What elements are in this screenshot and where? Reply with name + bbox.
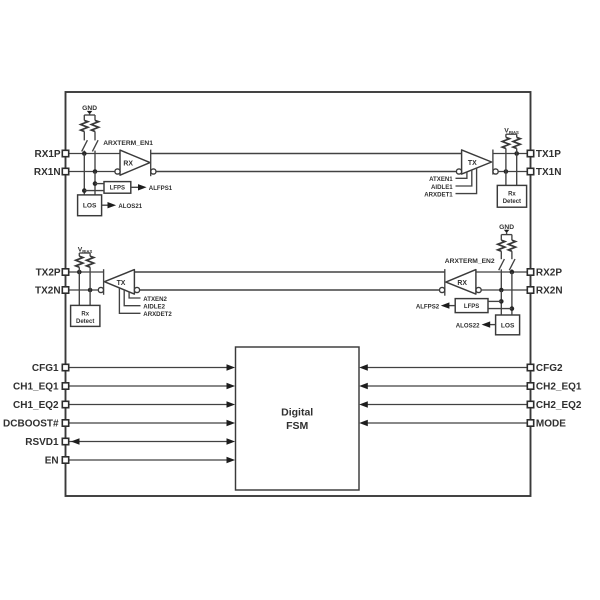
inverting input bubble TX2: [134, 287, 139, 292]
signal CH2_EQ2 to FSM: [359, 401, 527, 407]
IC boundary box: [66, 92, 531, 496]
pin CH1_EQ1: [13, 382, 69, 393]
pin TX2P: [36, 268, 69, 279]
svg-text:CH1_EQ2: CH1_EQ2: [13, 400, 59, 411]
signal DCBOOST# to FSM: [69, 420, 235, 426]
RX2 output bar: [444, 269, 446, 296]
pin RX2N: [527, 286, 562, 297]
svg-text:ALOS22: ALOS22: [456, 322, 480, 329]
LFPS block channel 1: [104, 182, 131, 194]
pin CH2_EQ2: [527, 400, 582, 411]
svg-text:ALFPS2: ALFPS2: [416, 303, 440, 310]
svg-text:Rx: Rx: [508, 192, 516, 198]
pin TX1P: [527, 149, 561, 160]
inverting input bubble RX2: [476, 287, 481, 292]
svg-text:LOS: LOS: [501, 322, 515, 329]
wire RX1N pin to RX amp: [69, 171, 115, 173]
inverting input bubble TX1: [456, 169, 461, 174]
signal ALOS21: [102, 202, 143, 210]
svg-text:TX: TX: [468, 160, 477, 167]
svg-text:ALFPS1: ALFPS1: [149, 185, 173, 192]
svg-text:ALOS21: ALOS21: [118, 203, 142, 210]
svg-text:MODE: MODE: [536, 419, 566, 430]
svg-text:ARXDET2: ARXDET2: [143, 311, 172, 318]
bias resistor TX1 right: [513, 134, 520, 153]
pin EN: [45, 456, 69, 467]
wire RX1P tap to LFPS: [84, 190, 104, 192]
VBIAS label channel 1: [504, 128, 519, 135]
pin RX1P: [34, 149, 68, 160]
signal ALOS22: [456, 321, 496, 329]
svg-text:LOS: LOS: [83, 203, 97, 210]
vertical wire bias to TX2P: [78, 272, 80, 305]
wire TX1N to pin: [498, 169, 527, 174]
svg-text:CFG2: CFG2: [536, 363, 563, 374]
pin RSVD1: [25, 437, 68, 448]
output bubble RX1: [151, 169, 156, 174]
wire RX2 out P to TX2: [134, 271, 444, 273]
svg-text:Rx: Rx: [81, 311, 89, 317]
wire RX1 out P to TX1: [151, 153, 462, 155]
svg-text:LFPS: LFPS: [110, 186, 125, 192]
ground symbol channel 1: [87, 111, 93, 115]
LOS block channel 1: [78, 195, 102, 216]
resistor right of RX1 termination: [91, 115, 98, 140]
vertical wire termination to RX1P: [82, 151, 87, 156]
svg-text:ATXEN1: ATXEN1: [429, 176, 453, 183]
TX1 output bar: [492, 150, 494, 175]
VBIAS rail channel 1: [506, 133, 517, 135]
vertical wire termination to RX2N: [499, 269, 504, 292]
svg-text:Detect: Detect: [76, 319, 94, 325]
signal EN to FSM: [69, 457, 235, 463]
svg-text:RX1P: RX1P: [34, 149, 60, 160]
signal RSVD1 to FSM: [69, 438, 235, 444]
svg-text:RX: RX: [123, 161, 133, 168]
svg-text:CH2_EQ1: CH2_EQ1: [536, 382, 582, 393]
signal AIDLE1: [431, 170, 472, 191]
signal ALFPS1: [131, 184, 173, 192]
signal ATXEN1: [429, 172, 467, 183]
svg-text:TX2N: TX2N: [35, 286, 61, 297]
pin TX1N: [527, 167, 561, 178]
svg-text:RX: RX: [457, 280, 467, 287]
svg-text:CFG1: CFG1: [32, 363, 59, 374]
RX1 output bar: [150, 150, 152, 177]
signal ARXDET1: [424, 168, 476, 198]
svg-text:AIDLE1: AIDLE1: [431, 184, 453, 191]
vertical wire bias to TX1P: [516, 154, 518, 186]
pin TX2N: [35, 286, 69, 297]
signal CFG1 to FSM: [69, 364, 235, 370]
svg-text:AIDLE2: AIDLE2: [143, 304, 165, 311]
signal CH2_EQ1 to FSM: [359, 383, 527, 389]
svg-text:RSVD1: RSVD1: [25, 437, 59, 448]
wire TX1P to pin: [493, 151, 527, 156]
ground symbol channel 2: [504, 230, 510, 235]
termination switch on RX1N: [92, 140, 98, 151]
signal CH1_EQ1 to FSM: [69, 383, 235, 389]
GND rail channel 2: [501, 234, 512, 236]
svg-text:CH2_EQ2: CH2_EQ2: [536, 400, 582, 411]
resistor left of RX2 termination: [498, 235, 505, 260]
signal CFG2 to FSM: [359, 364, 527, 370]
op-amp TX1: [462, 150, 492, 174]
wire RX2P tap to LFPS: [488, 308, 512, 310]
termination switch on RX1P: [82, 140, 88, 151]
VBIAS rail channel 2: [79, 252, 90, 254]
pin RX2P: [527, 268, 562, 279]
op-amp RX1: [120, 150, 150, 175]
wire RX1 out N to TX1: [156, 171, 456, 173]
svg-text:Detect: Detect: [503, 199, 521, 205]
output bubble TX2: [98, 287, 103, 292]
vertical wire bias to TX2N: [89, 272, 91, 305]
wire RX2N tap to LFPS: [488, 300, 501, 302]
wire TX2P to pin: [69, 270, 104, 275]
LOS block channel 2: [496, 315, 520, 335]
signal AIDLE2: [124, 290, 165, 311]
LFPS block channel 2: [455, 299, 488, 313]
termination switch on RX2P: [509, 259, 515, 270]
svg-text:TX: TX: [117, 280, 126, 287]
ARXTERM_EN2 label: [445, 258, 495, 265]
pin CH1_EQ2: [13, 400, 69, 411]
signal ALFPS2: [416, 302, 455, 310]
wire RX2P pin to RX amp: [476, 271, 527, 273]
svg-text:FSM: FSM: [286, 420, 308, 432]
pin DCBOOST#: [3, 419, 69, 430]
op-amp RX2: [446, 270, 476, 295]
svg-text:DCBOOST#: DCBOOST#: [3, 419, 59, 430]
svg-text:RX2N: RX2N: [536, 286, 563, 297]
resistor right of RX2 termination: [508, 235, 515, 260]
svg-text:Digital: Digital: [281, 407, 313, 419]
signal ATXEN2: [129, 292, 167, 303]
signal CH1_EQ2 to FSM: [69, 401, 235, 407]
inverting input bubble RX1: [115, 169, 120, 174]
wire RX1P pin to RX amp: [69, 153, 120, 155]
ARXTERM_EN1 label: [103, 140, 153, 147]
vertical wire RX1P to LOS: [82, 154, 87, 195]
Rx Detect block channel 1: [497, 185, 526, 207]
pin CH2_EQ1: [527, 382, 582, 393]
signal ARXDET2: [119, 288, 172, 318]
output bubble TX1: [493, 169, 498, 174]
Rx Detect block channel 2: [71, 305, 100, 326]
wire TX2N to pin: [69, 288, 98, 293]
svg-text:ARXDET1: ARXDET1: [424, 192, 453, 199]
wire RX2 out N to TX2: [140, 289, 440, 291]
GND label channel 2: [499, 224, 514, 231]
VBIAS label channel 2: [78, 246, 93, 253]
wire RX2N pin to RX amp: [481, 289, 527, 291]
vertical wire RX2N to LOS: [499, 290, 504, 315]
wire RX1N tap to LFPS: [95, 183, 104, 185]
pin MODE: [527, 419, 566, 430]
pin CFG1: [32, 363, 69, 374]
pin RX1N: [34, 167, 69, 178]
TX2 output bar: [103, 269, 105, 295]
bias resistor TX1 left: [502, 134, 509, 153]
svg-text:RX2P: RX2P: [536, 268, 562, 279]
pin CFG2: [527, 363, 563, 374]
vertical wire termination to RX2P: [510, 269, 515, 274]
vertical wire RX1N to LOS: [93, 172, 98, 195]
vertical wire termination to RX1N: [93, 151, 98, 174]
svg-text:LFPS: LFPS: [464, 304, 479, 310]
svg-text:TX1P: TX1P: [536, 149, 561, 160]
bias resistor TX2 right: [87, 253, 94, 272]
svg-text:ARXTERM_EN1: ARXTERM_EN1: [103, 140, 153, 147]
resistor left of RX1 termination: [81, 115, 88, 140]
svg-text:TX1N: TX1N: [536, 167, 562, 178]
svg-text:TX2P: TX2P: [36, 268, 61, 279]
bias resistor TX2 left: [76, 253, 83, 272]
vertical wire bias to TX1N: [505, 154, 507, 186]
output bubble RX2: [440, 287, 445, 292]
signal MODE to FSM: [359, 420, 527, 426]
op-amp TX2: [104, 270, 134, 295]
Digital FSM block: [236, 347, 360, 490]
svg-text:ARXTERM_EN2: ARXTERM_EN2: [445, 258, 495, 265]
svg-text:EN: EN: [45, 456, 59, 467]
GND rail channel 1: [84, 114, 95, 116]
termination switch on RX2N: [499, 259, 505, 270]
vertical wire RX2P to LOS: [510, 272, 515, 315]
svg-text:RX1N: RX1N: [34, 167, 61, 178]
svg-text:CH1_EQ1: CH1_EQ1: [13, 382, 59, 393]
GND label channel 1: [82, 105, 97, 112]
svg-text:ATXEN2: ATXEN2: [143, 296, 167, 303]
